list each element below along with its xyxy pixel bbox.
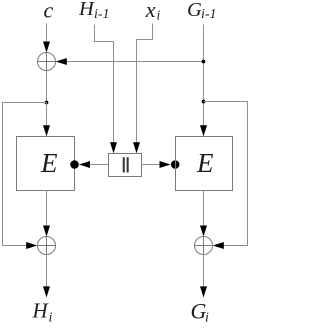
arrowhead into XOR1 top: [43, 42, 50, 53]
arrowhead into E2 top: [200, 125, 207, 136]
xor gate X4: [195, 237, 213, 255]
concat box ||: [109, 154, 142, 177]
arrowhead to G_i: [200, 286, 207, 297]
arrowhead x into concat top: [133, 142, 140, 153]
arrowhead into XOR3 top: [43, 226, 50, 237]
wire H_i-1 to concat: [95, 25, 114, 144]
wire XOR1 to junction A: [46, 71, 48, 103]
svg-text:E: E: [196, 148, 214, 178]
arrowhead into XOR4 right: [213, 242, 224, 249]
svg-text:i: i: [49, 311, 53, 326]
connection dot on E2 left edge: [171, 160, 180, 169]
wire junction A to E1: [46, 103, 48, 127]
wire G_i-1 branch to XOR1: [67, 61, 204, 63]
junction dot A: [45, 101, 49, 105]
wire E2 out to XOR4: [203, 191, 205, 228]
junction dot C: [202, 100, 206, 104]
arrowhead into E1 dot: [79, 161, 90, 168]
svg-text:c: c: [44, 0, 54, 23]
wire E1 out to XOR3: [46, 191, 48, 228]
arrowhead H into concat top: [110, 142, 117, 153]
svg-text:i: i: [157, 8, 161, 23]
svg-text:i-1: i-1: [94, 7, 110, 22]
svg-text:i-1: i-1: [201, 7, 217, 22]
svg-text:i: i: [205, 311, 209, 326]
wire c to XOR1: [46, 24, 48, 44]
label H_i-1: [78, 0, 110, 22]
wire feed-forward right (junction C to XOR4): [204, 102, 248, 246]
wire G_i-1 down: [203, 25, 205, 127]
svg-text:H: H: [32, 299, 50, 323]
block E1: [17, 137, 75, 191]
svg-text:H: H: [78, 0, 95, 20]
connection dot on E1 right edge: [70, 160, 79, 169]
junction dot B: [202, 60, 206, 64]
arrowhead into XOR3 left: [26, 242, 37, 249]
wire feed-forward left (junction A to XOR3): [3, 103, 47, 246]
label H_i: [32, 299, 53, 326]
arrowhead into XOR4 top: [200, 226, 207, 237]
label G_i: [191, 298, 210, 325]
svg-text:G: G: [187, 0, 202, 21]
arrowhead into XOR1 right: [56, 58, 67, 65]
svg-text:x: x: [145, 0, 156, 22]
arrowhead to H_i: [43, 286, 50, 297]
wire concat to E1: [90, 164, 109, 166]
arrowhead into E1 top: [43, 125, 50, 136]
arrowhead into E2 dot: [160, 161, 171, 168]
label x_i: [145, 0, 161, 23]
label G_i-1: [187, 0, 217, 22]
wire XOR4 to G_i: [203, 255, 205, 288]
xor gate X3: [38, 237, 56, 255]
svg-text:E: E: [40, 148, 58, 178]
wire concat to E2: [142, 164, 161, 166]
block E2: [176, 137, 233, 191]
wire XOR3 to H_i: [46, 255, 48, 288]
xor gate X1: [38, 53, 56, 71]
wire x_i to concat: [137, 24, 153, 144]
